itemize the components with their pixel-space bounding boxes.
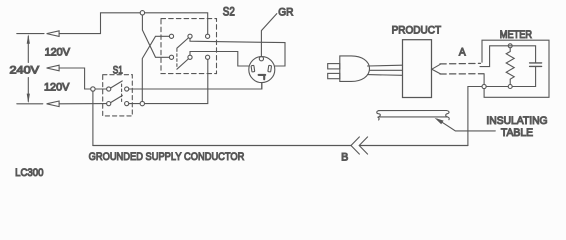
- S2 row2 left contact: [169, 55, 173, 59]
- receptacle top hole: [259, 57, 263, 61]
- dimension arrow up: [27, 34, 30, 44]
- meter resistor top node: [508, 44, 512, 48]
- meter lead from A-bottom dashed end: [483, 74, 485, 84]
- S1 row2 blade: [111, 96, 123, 103]
- S1 row2 left contact: [107, 102, 111, 106]
- supply arrow middle: [47, 65, 60, 71]
- receptacle L slot: [259, 75, 266, 79]
- switch box S1: [103, 75, 133, 116]
- S1 row1 left contact: [107, 87, 111, 91]
- S2 gang link: [176, 49, 178, 69]
- probe fork at product: [432, 64, 441, 74]
- S1 row1 right contact: [125, 87, 129, 91]
- wire S1 row2 node to S2 row2 right: [145, 59, 208, 103]
- svg-text:INSULATING: INSULATING: [486, 115, 547, 127]
- svg-text:PRODUCT: PRODUCT: [392, 24, 442, 36]
- receptacle body: [249, 57, 275, 83]
- meter resistor bottom node: [508, 85, 512, 89]
- product box: [403, 40, 432, 98]
- meter case loop: [482, 40, 549, 97]
- product cord plug body: [340, 56, 370, 82]
- receptacle right slot: [268, 65, 272, 72]
- S2 row1 middle contact: [188, 34, 192, 38]
- wire S2 row2 middle to plug left pin: [190, 52, 249, 67]
- wire S2 row1 middle to plug right pin: [190, 38, 285, 66]
- wire top node to X crossing to S2 row2 left: [142, 15, 169, 57]
- supply arrow bottom: [47, 101, 60, 107]
- wire node down-leg to X crossing: [142, 36, 169, 101]
- product cord wires: [368, 65, 403, 75]
- wire bottom 120V to S1 row2: [59, 103, 107, 105]
- insulating table top: [379, 110, 447, 112]
- wire top 120V to rail: [59, 13, 140, 34]
- S2 row1 right contact: [206, 34, 210, 38]
- svg-text:120V: 120V: [45, 47, 71, 59]
- receptacle left slot: [251, 65, 255, 72]
- meter capacitor plate top: [530, 62, 542, 64]
- svg-text:GROUNDED SUPPLY CONDUCTOR: GROUNDED SUPPLY CONDUCTOR: [89, 151, 245, 163]
- node top rail: [140, 11, 144, 15]
- insulating table right break: [446, 111, 450, 120]
- S2 row1 left contact: [169, 34, 173, 38]
- dimension line vertical upper: [27, 36, 29, 63]
- dimension tick bottom: [17, 103, 43, 105]
- svg-text:GR: GR: [278, 6, 293, 18]
- S1 row1 blade: [111, 81, 123, 88]
- wire node down to grounded conductor: [92, 91, 94, 145]
- svg-text:A: A: [459, 46, 466, 58]
- GR leader line: [261, 14, 276, 57]
- S1 gang link: [121, 84, 123, 102]
- meter inner top rail: [480, 46, 536, 67]
- grounded supply conductor left segment: [93, 145, 351, 147]
- dimension tick top: [17, 33, 44, 35]
- svg-text:TABLE: TABLE: [501, 127, 533, 139]
- meter bottom rail: [486, 86, 535, 88]
- S2 row2 right contact: [206, 55, 210, 59]
- dimension arrow down: [27, 94, 30, 104]
- probe lead A bottom (dashed): [440, 73, 484, 75]
- S2 row2 blade: [177, 59, 189, 69]
- node S1 feed: [91, 87, 95, 91]
- wire meter node to table vertical: [468, 87, 482, 146]
- S2 row2 middle contact: [188, 55, 192, 59]
- wire top rail to S2 right: [145, 13, 208, 34]
- wire plug bottom neutral corner: [261, 83, 263, 89]
- probe lead A top (dashed): [440, 62, 481, 65]
- svg-text:120V: 120V: [44, 82, 70, 94]
- meter node A-bottom: [482, 84, 486, 88]
- svg-text:LC300: LC300: [15, 167, 43, 179]
- break chevron 1: [351, 137, 359, 154]
- product cord plug prong 1: [328, 64, 340, 69]
- svg-text:S1: S1: [113, 65, 123, 77]
- break chevron 2: [359, 137, 367, 154]
- table leader line: [438, 119, 496, 131]
- svg-text:METER: METER: [500, 29, 533, 41]
- grounded supply conductor right segment: [360, 145, 468, 147]
- dimension line vertical lower: [27, 78, 29, 102]
- table leader arrow: [435, 118, 444, 124]
- svg-text:S2: S2: [223, 6, 235, 19]
- meter resistor R: [506, 48, 514, 85]
- switch box S2: [161, 19, 217, 74]
- S2 row1 blade: [177, 38, 189, 48]
- wire node to S1 row1: [95, 88, 107, 90]
- meter capacitor bottom lead: [535, 66, 537, 86]
- wire S1 row1 to plug bottom (neutral): [129, 83, 262, 89]
- node S1 row2: [140, 101, 144, 105]
- wire S1 row2 to node: [129, 103, 140, 105]
- svg-text:B: B: [341, 152, 348, 164]
- wire middle 240V to S1 node: [59, 68, 91, 89]
- meter capacitor plate bottom: [530, 65, 542, 67]
- S1 row2 right contact: [125, 102, 129, 106]
- product cord plug prong 2: [328, 73, 340, 78]
- svg-text:240V: 240V: [10, 64, 40, 76]
- supply arrow top: [47, 31, 60, 37]
- insulating table bottom: [380, 116, 448, 118]
- insulating table left break: [377, 111, 381, 120]
